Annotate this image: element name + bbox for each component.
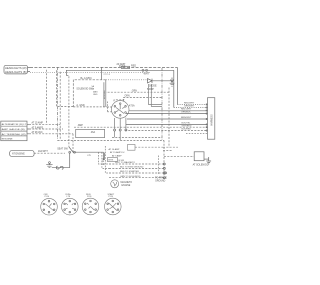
svg-text:DIODE: DIODE xyxy=(149,84,157,87)
bottom-left fuse table xyxy=(1,121,29,141)
svg-text:GROUND: GROUND xyxy=(155,181,166,183)
wire A top xyxy=(30,66,177,68)
relay box right xyxy=(193,152,209,167)
module inner rect xyxy=(73,74,111,107)
ignition switch circle xyxy=(111,101,129,119)
wire below pins to conn row8 xyxy=(125,130,208,132)
svg-text:ALTERNATOR (R) LT: ALTERNATOR (R) LT xyxy=(2,123,27,126)
switch position circle 2 xyxy=(62,194,79,215)
svg-text:BLK/RED: BLK/RED xyxy=(182,129,192,131)
module internal text rows xyxy=(93,90,98,96)
wire B+ 12VDC xyxy=(81,77,148,81)
svg-text:POS: POS xyxy=(87,196,92,198)
wire mid y70.3 xyxy=(66,69,173,147)
engine magneto symbol xyxy=(111,180,133,188)
long wire ignition right to conn row6 xyxy=(126,123,208,125)
svg-text:HARNESS: HARNESS xyxy=(211,114,214,126)
svg-text:AMP: AMP xyxy=(78,124,84,127)
svg-text:INTK: INTK xyxy=(108,160,114,162)
svg-text:MODULE: MODULE xyxy=(104,89,106,99)
wire GRN from ground node xyxy=(106,88,169,148)
vertical dashed x46.5 xyxy=(46,70,48,125)
svg-text:AT ENG: AT ENG xyxy=(102,157,105,164)
ignition label xyxy=(129,105,135,108)
connector wire labels xyxy=(181,103,195,131)
module boundary right dash-dot xyxy=(161,68,163,140)
svg-text:GRY/RED: GRY/RED xyxy=(182,126,192,128)
svg-text:RED: RED xyxy=(131,64,136,67)
svg-text:AT SOLENOID: AT SOLENOID xyxy=(193,163,209,166)
switch position circle 1 xyxy=(41,194,58,215)
wire into interlock box xyxy=(87,145,163,161)
svg-text:AT 5 AMP: AT 5 AMP xyxy=(112,154,122,157)
ground G1 xyxy=(46,162,52,168)
ignition bottom pins xyxy=(114,118,127,141)
svg-text:AC TERMINAL (W): AC TERMINAL (W) xyxy=(2,133,26,136)
module boundary inner xyxy=(59,72,61,141)
conn wires 1-2 xyxy=(174,105,208,108)
svg-text:3A: 3A xyxy=(92,87,95,90)
svg-text:HEADLIGHTS (B): HEADLIGHTS (B) xyxy=(5,70,27,74)
svg-text:10A WHT: 10A WHT xyxy=(38,150,48,153)
svg-text:ENGINE: ENGINE xyxy=(122,185,131,187)
chassis ground arrow xyxy=(170,78,175,87)
svg-text:#7D: #7D xyxy=(87,155,91,157)
switch position circle 3 xyxy=(82,194,99,215)
switch position circle 4 xyxy=(105,193,122,215)
fuse F1 label xyxy=(117,63,137,69)
svg-text:SEAT SW: SEAT SW xyxy=(57,147,68,150)
svg-text:BRN/WHT: BRN/WHT xyxy=(181,117,192,119)
svg-text:AT 15 AMP FU: AT 15 AMP FU xyxy=(110,151,125,154)
svg-text:AT ENGINE: AT ENGINE xyxy=(12,153,25,156)
svg-text:RED WHT: RED WHT xyxy=(181,109,192,111)
table wires xyxy=(29,122,60,125)
svg-text:MAG: MAG xyxy=(93,90,98,93)
module boundary left dash-dot xyxy=(57,67,59,140)
diode D1 xyxy=(148,79,173,88)
long wire ignition to conn row4 xyxy=(126,113,208,115)
vertical x56.4 to gnd line xyxy=(56,70,74,106)
right connector verticals xyxy=(174,67,178,107)
svg-text:473A: 473A xyxy=(129,105,135,108)
svg-text:TO FRAME: TO FRAME xyxy=(155,176,167,179)
wires left into ignition xyxy=(107,102,111,113)
seat ground wire xyxy=(52,166,70,169)
wires up from ignition xyxy=(114,90,162,101)
svg-text:LTS: LTS xyxy=(67,196,71,198)
svg-text:WHT: WHT xyxy=(144,72,150,75)
plain wire row5 xyxy=(127,118,208,120)
svg-text:AT 10 AMP: AT 10 AMP xyxy=(109,148,120,151)
stub dashes near relay xyxy=(163,147,178,150)
svg-text:5A: 5A xyxy=(92,85,95,88)
svg-text:ENGINE: ENGINE xyxy=(2,139,14,141)
svg-text:5 AMP: 5 AMP xyxy=(147,88,154,91)
svg-text:MAGNETO: MAGNETO xyxy=(121,181,133,184)
accessory gnd dashed wire xyxy=(73,104,107,107)
svg-text:ORN: ORN xyxy=(125,96,130,98)
svg-text:GRN: GRN xyxy=(132,90,137,92)
seat switch xyxy=(57,147,103,168)
vertical from wire A node xyxy=(100,67,102,79)
svg-text:AMP GAUGE (B): AMP GAUGE (B) xyxy=(2,128,25,131)
solenoid text row xyxy=(76,85,94,91)
headlight connector box xyxy=(4,65,30,74)
svg-text:ORN/BLK: ORN/BLK xyxy=(181,112,191,114)
svg-text:2 TO 1: 2 TO 1 xyxy=(104,74,111,76)
svg-text:POS: POS xyxy=(45,196,50,198)
diode drop wires xyxy=(147,84,162,106)
interlock small box xyxy=(107,158,124,162)
svg-text:POS: POS xyxy=(109,196,114,198)
lower wire rows xyxy=(109,161,165,165)
fuel shutoff rounded box xyxy=(10,150,34,156)
relay ground xyxy=(204,157,211,164)
svg-text:GND: GND xyxy=(93,94,98,96)
right lower text xyxy=(155,172,167,183)
left feeders for rows xyxy=(98,146,109,173)
fuel wire + label xyxy=(34,150,65,153)
wire y140.4 to relay xyxy=(58,140,195,176)
svg-text:GRN/WHT: GRN/WHT xyxy=(184,106,195,108)
long wire ignition to conn row3 xyxy=(129,110,208,112)
dashed wire y137.4 xyxy=(112,136,162,138)
svg-text:BLK/YEL: BLK/YEL xyxy=(182,123,192,125)
module wire to conn row7 xyxy=(74,124,208,127)
right connector box xyxy=(186,98,215,140)
svg-text:46A: 46A xyxy=(91,131,96,134)
svg-text:RED/WHT: RED/WHT xyxy=(184,103,195,105)
vertical dashed x158.6 xyxy=(158,156,160,175)
module lower rect xyxy=(76,129,105,137)
wire B dotted xyxy=(30,72,150,75)
